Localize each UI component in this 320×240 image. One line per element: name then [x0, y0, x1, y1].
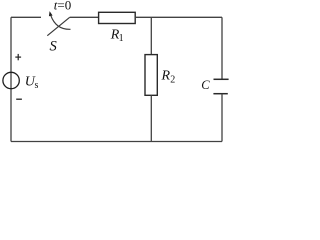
wire switch to R1	[70, 16, 99, 18]
label + polarity	[15, 54, 21, 60]
label R2	[161, 69, 176, 86]
label t=0	[54, 0, 71, 13]
resistor R1	[99, 12, 136, 23]
svg-text:t=0: t=0	[54, 0, 71, 13]
label R1	[110, 27, 124, 44]
wire top-left segment	[11, 16, 41, 18]
wire right branch lower	[221, 94, 223, 142]
svg-text:S: S	[50, 39, 58, 55]
wire R1 to top-right corner	[135, 16, 222, 18]
label S	[50, 39, 58, 55]
capacitor C	[213, 79, 228, 93]
label - polarity	[16, 98, 22, 100]
svg-text:C: C	[201, 78, 210, 92]
wire bottom	[11, 141, 222, 143]
svg-text:1: 1	[119, 33, 124, 44]
wire middle branch upper	[150, 17, 152, 54]
switch S	[47, 11, 70, 36]
label Us	[25, 75, 39, 92]
svg-text:2: 2	[170, 75, 175, 86]
wire left branch	[10, 17, 12, 141]
resistor R2	[145, 55, 157, 96]
wire middle branch lower	[150, 95, 152, 141]
label C	[201, 78, 210, 92]
voltage source Us	[3, 72, 19, 88]
svg-text:s: s	[35, 80, 39, 91]
svg-text:R: R	[161, 69, 171, 84]
wire right branch upper	[221, 17, 223, 79]
